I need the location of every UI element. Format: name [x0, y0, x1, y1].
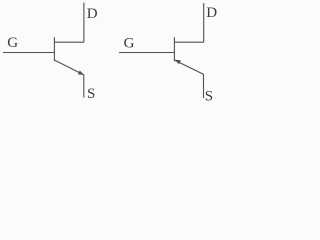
svg-text:D: D — [87, 6, 98, 22]
transistor Q1 (left, n-channel FET) gate wire — [3, 52, 54, 54]
svg-text:S: S — [87, 86, 95, 102]
wire Q1 source vertical to S — [83, 75, 85, 98]
wire Q2 drain horizontal — [174, 41, 203, 43]
svg-text:S: S — [205, 88, 213, 104]
wire Q2 drain vertical to D — [203, 3, 205, 42]
transistor Q2 gate bar — [173, 37, 175, 61]
wire Q1 source diagonal — [55, 60, 84, 75]
wire Q1 drain vertical to D — [83, 3, 85, 43]
wire Q2 source vertical to S — [203, 74, 205, 98]
arrowhead Q1 (points toward S) — [78, 71, 84, 76]
transistor Q2 (right, p-channel FET) gate wire — [119, 52, 174, 54]
arrowhead Q2 (points toward gate bar) — [175, 60, 181, 65]
transistor Q1 gate bar — [53, 37, 55, 61]
svg-text:G: G — [124, 35, 135, 51]
svg-text:G: G — [7, 35, 18, 51]
svg-text:D: D — [206, 5, 217, 21]
wire Q2 source diagonal — [175, 60, 204, 74]
wire Q1 drain horizontal — [54, 41, 84, 43]
